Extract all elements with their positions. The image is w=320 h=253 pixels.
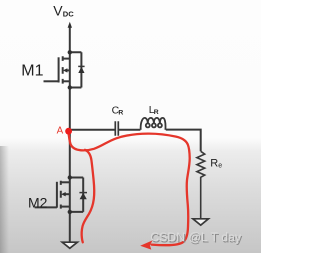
svg-text:R: R — [154, 109, 159, 116]
svg-text:R: R — [210, 157, 218, 169]
svg-text:M1: M1 — [21, 63, 43, 80]
svg-text:V: V — [53, 3, 63, 19]
svg-text:R: R — [118, 110, 123, 117]
svg-text:M2: M2 — [28, 195, 48, 211]
svg-text:e: e — [218, 163, 222, 170]
svg-text:CSDN @L T day: CSDN @L T day — [150, 230, 242, 244]
svg-text:A: A — [57, 125, 64, 136]
svg-text:DC: DC — [63, 10, 74, 19]
